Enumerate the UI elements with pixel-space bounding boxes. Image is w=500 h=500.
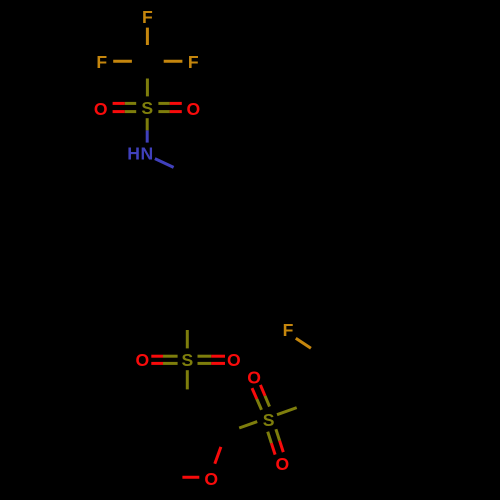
bond F3-C1 (F half) [164,60,183,63]
double bond S3=O5 left line (O half) [252,388,257,399]
double bond S3=O6 left line (S half) [268,432,272,444]
svg-text:S: S [263,410,275,430]
double bond S3=O5 right line (O half) [260,385,265,396]
svg-text:F: F [188,52,199,72]
svg-text:O: O [204,469,218,489]
bond S2-ring C below (S half) [186,370,189,389]
bond S3-ring C upper right (S half) [277,408,297,415]
svg-text:O: O [227,350,241,370]
bond F1-C1 (F half) [146,28,149,45]
svg-text:N: N [141,144,154,164]
double bond S1=O2 upper line (O half) [170,102,182,105]
bond O7-ring C left (O half) [182,476,199,479]
svg-text:O: O [94,99,108,119]
double bond S1=O2 lower line (S half) [158,110,169,113]
double bond S2=O4 lower line (S half) [198,362,212,365]
svg-text:O: O [187,99,201,119]
svg-text:S: S [141,98,153,118]
double bond S3=O6 left line (O half) [271,443,275,454]
double bond S3=O5 left line (S half) [257,399,262,410]
double bond S2=O4 upper line (O half) [211,355,225,358]
double bond S2=O3 upper line (O half) [151,355,163,358]
bond F2-C1 (F half) [113,60,132,63]
double bond S2=O4 lower line (O half) [211,362,225,365]
double bond S3=O6 right line (S half) [276,429,280,441]
double bond S2=O4 upper line (S half) [198,355,212,358]
double bond S1=O1 upper line (S half) [125,102,136,105]
double bond S2=O3 upper line (S half) [163,355,178,358]
bond N-CH2 (N half) [155,159,174,168]
bond C1-S1 (S half) [146,79,149,97]
double bond S2=O3 lower line (O half) [151,362,163,365]
svg-text:S: S [182,350,194,370]
svg-text:F: F [283,320,294,340]
double bond S2=O3 lower line (S half) [163,362,178,365]
svg-text:O: O [136,350,150,370]
svg-text:O: O [275,454,289,474]
bond S1-N (S half) [146,118,149,130]
double bond S1=O2 lower line (O half) [170,110,182,113]
double bond S1=O1 lower line (S half) [125,110,136,113]
svg-text:H: H [127,144,140,164]
bond S3-ring C lower left (S half) [239,422,257,428]
double bond S1=O1 upper line (O half) [113,102,125,105]
svg-text:O: O [247,368,261,388]
bond S1-N (N half) [146,130,149,142]
double bond S3=O5 right line (S half) [265,396,270,407]
double bond S3=O6 right line (O half) [280,441,284,452]
double bond S1=O1 lower line (O half) [113,110,125,113]
bond ring C-S2 (S half) [186,330,189,348]
bond O7-ring C upper right (O half) [215,447,221,464]
svg-text:F: F [96,52,107,72]
bond F4-ring C (F half) [296,338,311,348]
double bond S1=O2 upper line (S half) [158,102,169,105]
svg-text:F: F [142,7,153,27]
